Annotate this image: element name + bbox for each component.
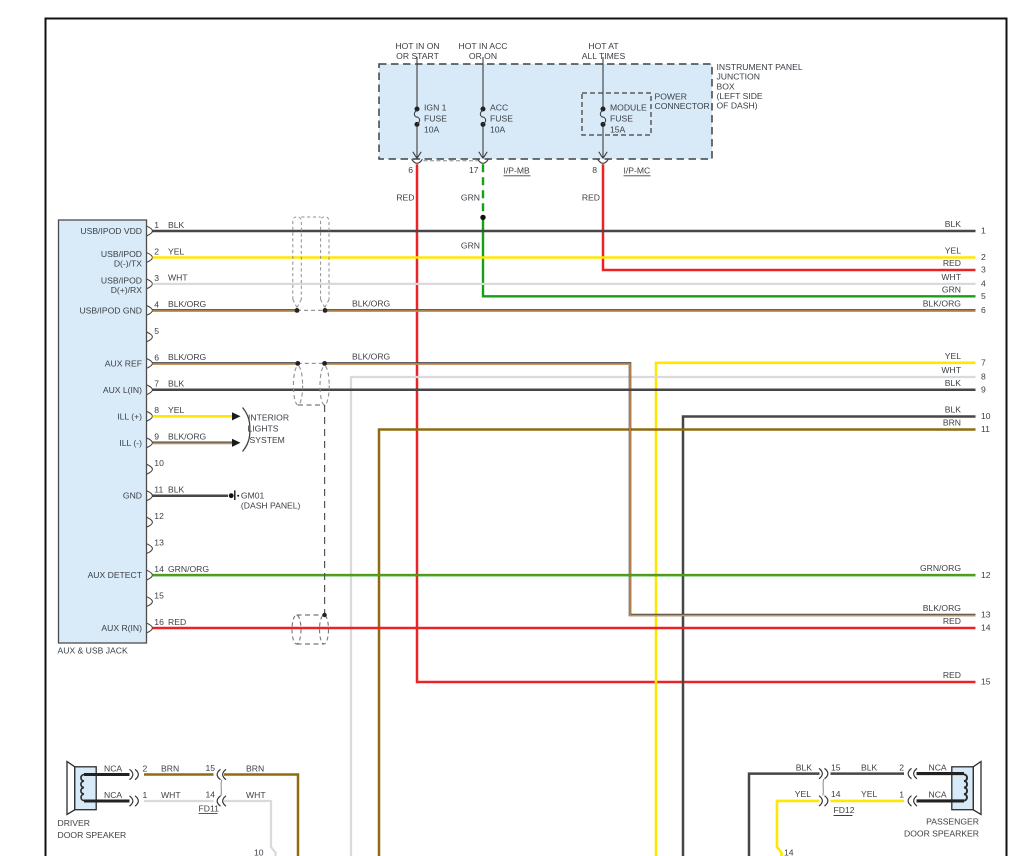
svg-text:DOOR SPEAKER: DOOR SPEAKER xyxy=(58,830,127,840)
svg-text:2: 2 xyxy=(143,763,148,773)
svg-text:10A: 10A xyxy=(490,125,506,135)
svg-text:HOT IN ACC: HOT IN ACC xyxy=(458,41,507,51)
svg-text:14: 14 xyxy=(981,623,991,633)
svg-text:NCA: NCA xyxy=(104,763,122,773)
svg-text:FD11: FD11 xyxy=(199,803,220,813)
svg-text:BLK/ORG: BLK/ORG xyxy=(923,603,962,613)
svg-text:CONNECTOR: CONNECTOR xyxy=(655,101,710,111)
svg-text:7: 7 xyxy=(981,358,986,368)
svg-text:YEL: YEL xyxy=(795,789,811,799)
svg-text:D(+)/RX: D(+)/RX xyxy=(111,285,143,295)
svg-text:10: 10 xyxy=(154,458,164,468)
svg-text:15A: 15A xyxy=(610,125,626,135)
svg-text:3: 3 xyxy=(154,273,159,283)
svg-text:WHT: WHT xyxy=(941,272,961,282)
svg-text:12: 12 xyxy=(981,570,991,580)
svg-text:(DASH PANEL): (DASH PANEL) xyxy=(241,500,301,510)
svg-text:BLK: BLK xyxy=(945,405,962,415)
svg-text:AUX REF: AUX REF xyxy=(105,358,142,368)
svg-text:15: 15 xyxy=(154,591,164,601)
svg-text:SYSTEM: SYSTEM xyxy=(250,435,285,445)
svg-text:FUSE: FUSE xyxy=(610,114,633,124)
svg-text:1: 1 xyxy=(981,226,986,236)
svg-text:YEL: YEL xyxy=(168,246,184,256)
svg-text:HOT AT: HOT AT xyxy=(588,41,619,51)
svg-text:WHT: WHT xyxy=(246,790,266,800)
svg-text:12: 12 xyxy=(154,511,164,521)
svg-text:BLK/ORG: BLK/ORG xyxy=(923,298,962,308)
svg-text:8: 8 xyxy=(592,165,597,175)
svg-text:I/P-MC: I/P-MC xyxy=(624,166,651,176)
svg-text:JUNCTION: JUNCTION xyxy=(717,72,760,82)
svg-text:2: 2 xyxy=(981,252,986,262)
svg-text:BRN: BRN xyxy=(161,763,179,773)
svg-text:WHT: WHT xyxy=(168,273,188,283)
svg-text:ALL TIMES: ALL TIMES xyxy=(582,51,626,61)
svg-text:10A: 10A xyxy=(424,125,440,135)
svg-text:9: 9 xyxy=(154,432,159,442)
svg-text:MODULE: MODULE xyxy=(610,103,647,113)
svg-text:BLK: BLK xyxy=(168,220,185,230)
svg-text:BLK: BLK xyxy=(168,485,185,495)
svg-text:DOOR SPEARKER: DOOR SPEARKER xyxy=(904,829,979,839)
svg-text:13: 13 xyxy=(154,538,164,548)
svg-text:YEL: YEL xyxy=(945,246,961,256)
svg-text:YEL: YEL xyxy=(861,789,877,799)
svg-text:15: 15 xyxy=(205,763,215,773)
svg-text:LIGHTS: LIGHTS xyxy=(248,424,279,434)
svg-text:BLK/ORG: BLK/ORG xyxy=(352,299,391,309)
svg-text:14: 14 xyxy=(784,848,794,856)
svg-text:14: 14 xyxy=(205,789,215,799)
svg-text:BLK: BLK xyxy=(945,219,962,229)
svg-text:I/P-MB: I/P-MB xyxy=(504,166,531,176)
svg-text:(LEFT SIDE: (LEFT SIDE xyxy=(717,91,763,101)
svg-text:BRN: BRN xyxy=(943,418,961,428)
svg-text:NCA: NCA xyxy=(104,790,122,800)
svg-text:AUX R(IN): AUX R(IN) xyxy=(101,623,142,633)
svg-text:BLK: BLK xyxy=(861,762,878,772)
svg-text:INTERIOR: INTERIOR xyxy=(248,413,289,423)
svg-text:GRN: GRN xyxy=(942,284,961,294)
svg-text:WHT: WHT xyxy=(161,790,181,800)
svg-text:5: 5 xyxy=(154,326,159,336)
svg-text:AUX DETECT: AUX DETECT xyxy=(88,570,143,580)
svg-text:RED: RED xyxy=(943,616,961,626)
svg-text:2: 2 xyxy=(899,762,904,772)
svg-text:10: 10 xyxy=(981,411,991,421)
svg-text:4: 4 xyxy=(981,279,986,289)
svg-text:GRN/ORG: GRN/ORG xyxy=(168,564,209,574)
svg-text:DRIVER: DRIVER xyxy=(58,818,90,828)
svg-text:OF DASH): OF DASH) xyxy=(717,101,758,111)
svg-text:14: 14 xyxy=(831,789,841,799)
svg-text:RED: RED xyxy=(943,670,961,680)
svg-text:FUSE: FUSE xyxy=(424,114,447,124)
svg-text:ILL (+): ILL (+) xyxy=(117,411,142,421)
svg-text:USB/IPOD GND: USB/IPOD GND xyxy=(79,305,142,315)
svg-text:WHT: WHT xyxy=(941,365,961,375)
svg-text:2: 2 xyxy=(154,246,159,256)
svg-text:8: 8 xyxy=(154,405,159,415)
svg-text:ILL (-): ILL (-) xyxy=(119,438,142,448)
svg-text:BRN: BRN xyxy=(246,763,264,773)
svg-text:11: 11 xyxy=(154,485,163,495)
svg-text:15: 15 xyxy=(831,762,841,772)
svg-text:6: 6 xyxy=(408,165,413,175)
svg-text:9: 9 xyxy=(981,385,986,395)
svg-text:PASSENGER: PASSENGER xyxy=(926,817,979,827)
svg-text:AUX L(IN): AUX L(IN) xyxy=(103,385,142,395)
svg-text:IGN 1: IGN 1 xyxy=(424,103,447,113)
svg-text:8: 8 xyxy=(981,372,986,382)
svg-text:BLK: BLK xyxy=(945,378,962,388)
svg-text:4: 4 xyxy=(154,299,159,309)
svg-text:1: 1 xyxy=(899,790,904,800)
svg-text:GRN/ORG: GRN/ORG xyxy=(920,563,961,573)
svg-text:D(-)/TX: D(-)/TX xyxy=(114,259,142,269)
svg-text:GND: GND xyxy=(123,491,142,501)
svg-text:OR ON: OR ON xyxy=(469,51,497,61)
svg-text:NCA: NCA xyxy=(929,790,947,800)
svg-text:INSTRUMENT PANEL: INSTRUMENT PANEL xyxy=(717,62,803,72)
svg-text:15: 15 xyxy=(981,677,991,687)
svg-text:ACC: ACC xyxy=(490,103,508,113)
svg-text:17: 17 xyxy=(469,165,479,175)
svg-text:RED: RED xyxy=(396,193,414,203)
svg-text:7: 7 xyxy=(154,379,159,389)
svg-text:GRN: GRN xyxy=(461,241,480,251)
svg-text:6: 6 xyxy=(154,352,159,362)
svg-text:14: 14 xyxy=(154,564,164,574)
svg-text:FD12: FD12 xyxy=(834,805,855,815)
svg-text:HOT IN ON: HOT IN ON xyxy=(395,41,439,51)
svg-text:10: 10 xyxy=(254,848,264,856)
svg-text:RED: RED xyxy=(168,617,186,627)
svg-text:5: 5 xyxy=(981,291,986,301)
svg-text:POWER: POWER xyxy=(655,91,687,101)
svg-text:3: 3 xyxy=(981,265,986,275)
svg-text:RED: RED xyxy=(943,258,961,268)
svg-text:GRN: GRN xyxy=(461,193,480,203)
svg-text:YEL: YEL xyxy=(945,351,961,361)
svg-text:BLK: BLK xyxy=(796,762,813,772)
svg-text:BLK/ORG: BLK/ORG xyxy=(168,299,207,309)
svg-text:13: 13 xyxy=(981,610,991,620)
svg-text:OR START: OR START xyxy=(396,51,439,61)
svg-text:GM01: GM01 xyxy=(241,491,265,501)
svg-text:BOX: BOX xyxy=(717,81,735,91)
svg-text:USB/IPOD VDD: USB/IPOD VDD xyxy=(80,226,142,236)
svg-text:BLK/ORG: BLK/ORG xyxy=(352,352,391,362)
svg-text:YEL: YEL xyxy=(168,405,184,415)
svg-text:16: 16 xyxy=(154,617,164,627)
svg-text:RED: RED xyxy=(582,193,600,203)
svg-text:BLK: BLK xyxy=(168,379,185,389)
svg-text:BLK/ORG: BLK/ORG xyxy=(168,352,207,362)
svg-text:BLK/ORG: BLK/ORG xyxy=(168,432,207,442)
svg-text:11: 11 xyxy=(981,424,990,434)
svg-text:NCA: NCA xyxy=(929,762,947,772)
svg-text:1: 1 xyxy=(154,220,159,230)
svg-text:6: 6 xyxy=(981,305,986,315)
svg-text:FUSE: FUSE xyxy=(490,114,513,124)
svg-text:1: 1 xyxy=(143,790,148,800)
svg-text:AUX & USB JACK: AUX & USB JACK xyxy=(58,646,128,656)
